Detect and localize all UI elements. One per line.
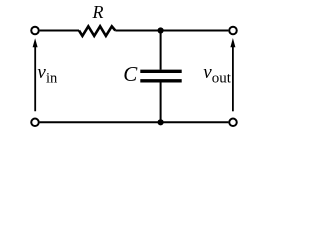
svg-text:R: R bbox=[92, 2, 104, 22]
svg-text:out: out bbox=[212, 70, 232, 86]
svg-text:C: C bbox=[123, 62, 138, 86]
svg-text:in: in bbox=[46, 71, 58, 87]
